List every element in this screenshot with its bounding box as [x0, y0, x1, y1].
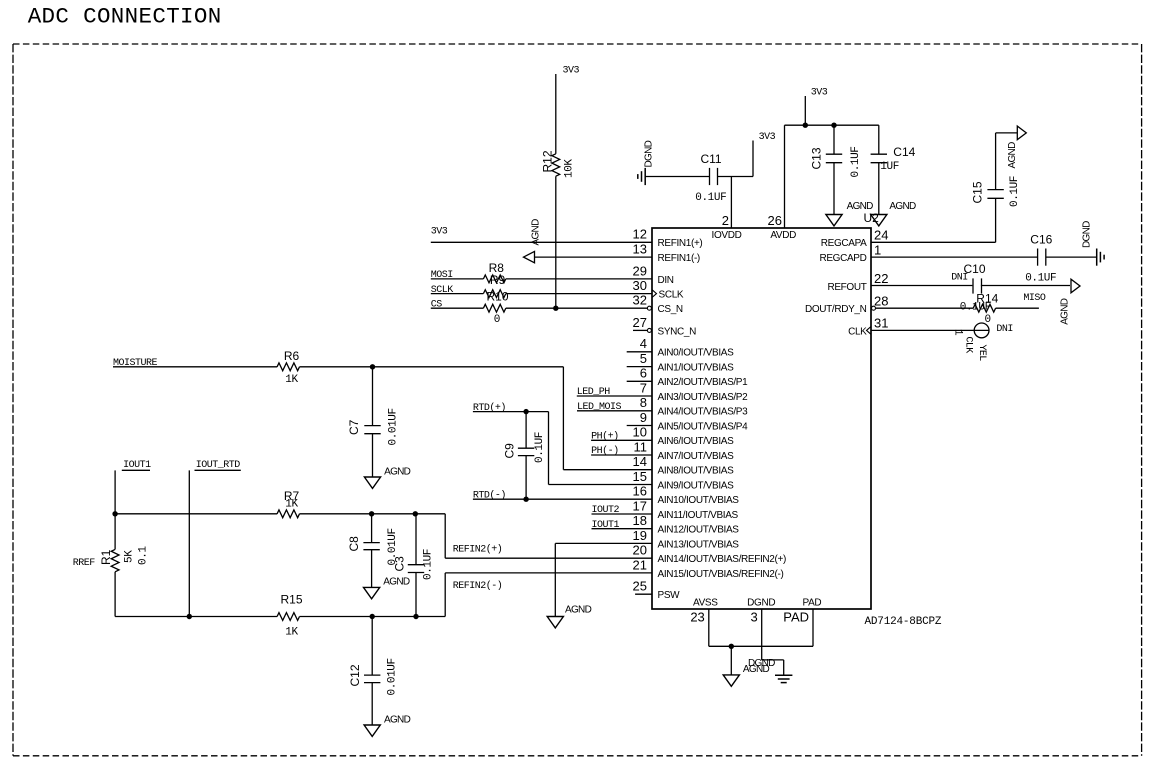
svg-text:23: 23: [690, 609, 704, 624]
svg-text:13: 13: [633, 242, 647, 257]
svg-text:5K: 5K: [124, 550, 136, 563]
svg-text:26: 26: [768, 213, 782, 228]
svg-text:15: 15: [633, 469, 647, 484]
svg-text:REFIN2(+): REFIN2(+): [453, 544, 503, 556]
svg-text:AIN7/IOUT/VBIAS: AIN7/IOUT/VBIAS: [658, 451, 735, 462]
svg-text:0.1UF: 0.1UF: [1009, 176, 1021, 207]
svg-text:1K: 1K: [285, 374, 298, 386]
svg-text:21: 21: [633, 557, 647, 572]
svg-text:8: 8: [640, 395, 647, 410]
svg-text:27: 27: [633, 315, 647, 330]
svg-text:SCLK: SCLK: [659, 290, 684, 301]
svg-text:AGND: AGND: [889, 201, 916, 212]
svg-text:AIN2/IOUT/VBIAS/P1: AIN2/IOUT/VBIAS/P1: [658, 377, 749, 388]
svg-text:0.1UF: 0.1UF: [534, 432, 546, 463]
svg-text:17: 17: [633, 498, 647, 513]
svg-text:3V3: 3V3: [431, 227, 448, 238]
svg-text:DGND: DGND: [747, 598, 775, 609]
svg-text:AGND: AGND: [531, 219, 542, 246]
svg-text:AGND: AGND: [384, 467, 411, 478]
svg-text:1: 1: [874, 242, 881, 257]
svg-text:AGND: AGND: [743, 664, 770, 675]
svg-text:IOVDD: IOVDD: [712, 230, 742, 241]
svg-text:REGCAPD: REGCAPD: [819, 253, 866, 264]
svg-text:0.01UF: 0.01UF: [388, 408, 400, 445]
svg-text:DIN: DIN: [658, 275, 674, 286]
svg-text:C11: C11: [700, 152, 721, 166]
svg-text:CLK: CLK: [848, 326, 867, 337]
svg-text:32: 32: [633, 293, 647, 308]
svg-text:R10: R10: [486, 290, 508, 304]
svg-text:0.1UF: 0.1UF: [850, 146, 862, 177]
svg-text:C13: C13: [810, 147, 824, 169]
svg-text:DGND: DGND: [1082, 221, 1093, 248]
svg-text:AIN4/IOUT/VBIAS/P3: AIN4/IOUT/VBIAS/P3: [658, 407, 749, 418]
svg-text:R1: R1: [99, 549, 113, 565]
svg-text:CS_N: CS_N: [658, 304, 683, 315]
svg-text:DOUT/RDY_N: DOUT/RDY_N: [805, 304, 867, 315]
svg-text:CLK: CLK: [963, 337, 974, 354]
svg-text:9: 9: [640, 410, 647, 425]
svg-text:5: 5: [640, 351, 647, 366]
svg-text:AD7124-8BCPZ: AD7124-8BCPZ: [865, 616, 942, 628]
svg-text:14: 14: [633, 454, 647, 469]
svg-text:C12: C12: [348, 664, 362, 686]
svg-text:AGND: AGND: [1007, 142, 1018, 169]
svg-text:DGND: DGND: [644, 140, 655, 167]
svg-text:C14: C14: [893, 145, 915, 159]
svg-text:R15: R15: [280, 593, 302, 607]
svg-text:0.1: 0.1: [138, 546, 150, 565]
svg-text:29: 29: [633, 263, 647, 278]
svg-text:PAD: PAD: [803, 598, 822, 609]
svg-text:IOUT_RTD: IOUT_RTD: [196, 460, 241, 471]
svg-text:AGND: AGND: [383, 577, 410, 588]
svg-text:3V3: 3V3: [811, 87, 828, 98]
svg-text:AGND: AGND: [384, 714, 411, 725]
svg-text:1: 1: [952, 329, 964, 336]
svg-text:10K: 10K: [564, 159, 576, 178]
svg-text:SYNC_N: SYNC_N: [658, 326, 697, 337]
svg-text:1UF: 1UF: [880, 161, 899, 173]
svg-text:AIN15/IOUT/VBIAS/REFIN2(-): AIN15/IOUT/VBIAS/REFIN2(-): [658, 569, 784, 580]
svg-text:AIN8/IOUT/VBIAS: AIN8/IOUT/VBIAS: [658, 466, 735, 477]
svg-text:AIN13/IOUT/VBIAS: AIN13/IOUT/VBIAS: [658, 539, 740, 550]
svg-text:AIN9/IOUT/VBIAS: AIN9/IOUT/VBIAS: [658, 480, 735, 491]
svg-text:AIN12/IOUT/VBIAS: AIN12/IOUT/VBIAS: [658, 525, 740, 536]
svg-text:AVSS: AVSS: [693, 598, 718, 609]
svg-text:C15: C15: [971, 181, 985, 203]
svg-text:22: 22: [874, 271, 888, 286]
svg-text:REFIN1(+): REFIN1(+): [658, 238, 703, 249]
svg-text:16: 16: [633, 484, 647, 499]
svg-text:12: 12: [633, 227, 647, 242]
svg-text:PAD: PAD: [783, 609, 809, 624]
svg-text:R9: R9: [490, 273, 506, 287]
svg-text:AIN11/IOUT/VBIAS: AIN11/IOUT/VBIAS: [658, 510, 739, 521]
svg-text:11: 11: [634, 439, 648, 454]
svg-text:AVDD: AVDD: [770, 230, 796, 241]
svg-text:0.1UF: 0.1UF: [423, 549, 435, 580]
svg-text:AIN5/IOUT/VBIAS/P4: AIN5/IOUT/VBIAS/P4: [658, 421, 749, 432]
svg-text:3V3: 3V3: [563, 66, 580, 77]
svg-text:C8: C8: [347, 536, 361, 552]
svg-text:REFIN2(-): REFIN2(-): [453, 580, 503, 592]
svg-text:7: 7: [640, 380, 647, 395]
svg-text:AGND: AGND: [1060, 298, 1071, 325]
svg-text:6: 6: [640, 366, 647, 381]
svg-text:C7: C7: [347, 419, 361, 435]
svg-text:IOUT1: IOUT1: [123, 460, 151, 471]
svg-text:REFOUT: REFOUT: [827, 282, 866, 293]
svg-text:C3: C3: [393, 556, 407, 572]
svg-text:18: 18: [633, 513, 647, 528]
svg-text:AIN14/IOUT/VBIAS/REFIN2(+): AIN14/IOUT/VBIAS/REFIN2(+): [658, 554, 786, 565]
svg-text:3: 3: [750, 609, 757, 624]
svg-text:4: 4: [640, 336, 647, 351]
svg-text:AIN0/IOUT/VBIAS: AIN0/IOUT/VBIAS: [658, 348, 735, 359]
svg-text:AIN3/IOUT/VBIAS/P2: AIN3/IOUT/VBIAS/P2: [658, 392, 749, 403]
svg-text:RREF: RREF: [73, 558, 96, 569]
svg-text:31: 31: [874, 316, 888, 331]
svg-text:19: 19: [633, 528, 647, 543]
svg-text:0.01UF: 0.01UF: [387, 658, 399, 695]
svg-text:10: 10: [633, 425, 647, 440]
svg-text:U2: U2: [864, 211, 880, 225]
svg-text:24: 24: [874, 228, 888, 243]
svg-text:AIN10/IOUT/VBIAS: AIN10/IOUT/VBIAS: [658, 495, 740, 506]
svg-text:0: 0: [494, 314, 500, 326]
svg-text:AGND: AGND: [565, 605, 592, 616]
svg-text:3V3: 3V3: [759, 132, 776, 143]
svg-text:25: 25: [633, 579, 647, 594]
svg-text:2: 2: [722, 213, 729, 228]
svg-text:YEL: YEL: [976, 345, 987, 362]
svg-text:MISO: MISO: [1023, 293, 1046, 304]
svg-text:R6: R6: [284, 349, 300, 363]
svg-text:ADC CONNECTION: ADC CONNECTION: [28, 3, 222, 29]
svg-text:AIN1/IOUT/VBIAS: AIN1/IOUT/VBIAS: [658, 363, 735, 374]
svg-text:DNI: DNI: [951, 272, 968, 283]
svg-text:30: 30: [633, 278, 647, 293]
svg-text:0.1UF: 0.1UF: [1025, 273, 1056, 285]
svg-text:PSW: PSW: [658, 590, 681, 601]
svg-text:REFIN1(-): REFIN1(-): [658, 253, 700, 264]
svg-text:C16: C16: [1030, 232, 1052, 246]
svg-text:1K: 1K: [285, 626, 298, 638]
svg-text:0.1UF: 0.1UF: [695, 192, 726, 204]
svg-text:20: 20: [633, 543, 647, 558]
svg-text:C9: C9: [503, 443, 517, 459]
svg-text:AIN6/IOUT/VBIAS: AIN6/IOUT/VBIAS: [658, 436, 735, 447]
svg-text:R14: R14: [976, 292, 998, 306]
svg-text:28: 28: [874, 293, 888, 308]
svg-text:REGCAPA: REGCAPA: [821, 238, 867, 249]
svg-text:DNI: DNI: [996, 324, 1013, 335]
svg-text:R12: R12: [541, 150, 555, 172]
svg-text:1K: 1K: [285, 499, 298, 511]
